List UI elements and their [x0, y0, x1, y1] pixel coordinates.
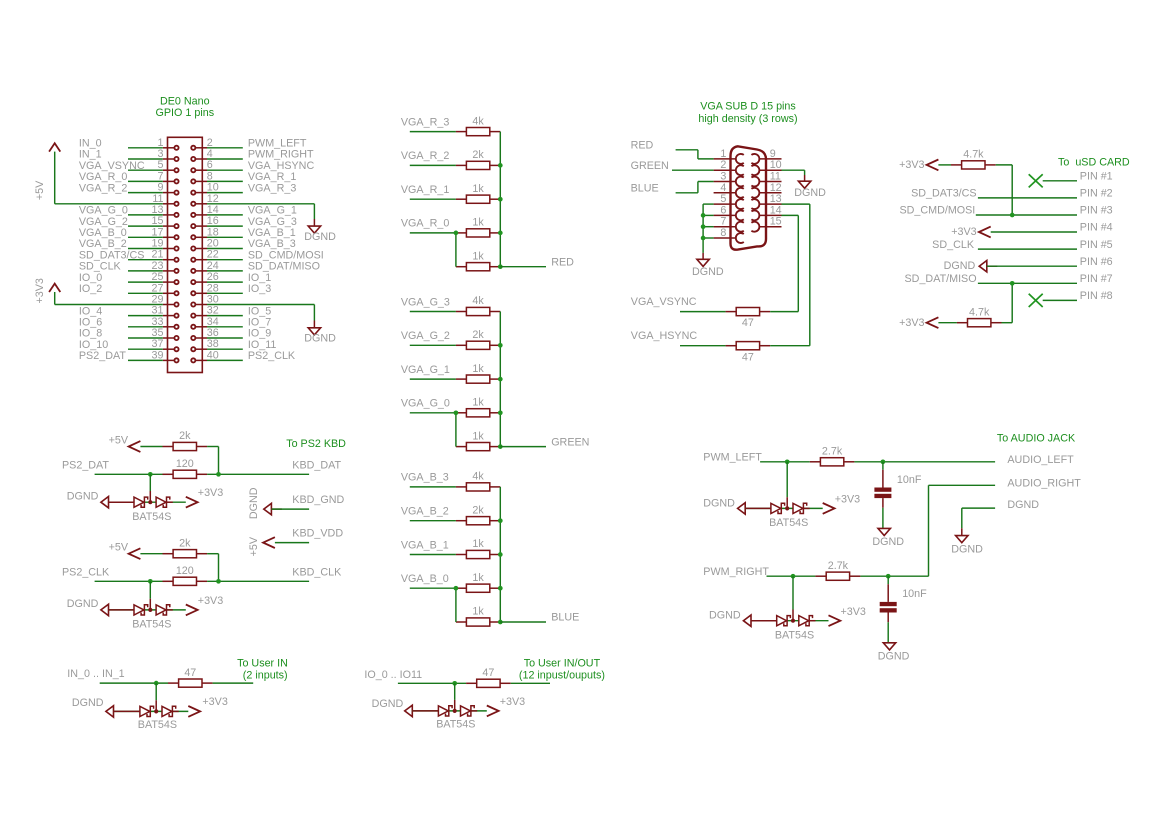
wire GREEN to pin 2 [672, 169, 714, 171]
resistor 2k (VGA_B_2) [456, 504, 500, 524]
wire net VGA_B_0 [410, 587, 456, 589]
connector VGA SUB D 15 pins [698, 101, 797, 250]
diode BAT54S (user IO) diode A [438, 706, 452, 716]
wire net IO_6 [128, 326, 163, 328]
svg-text:20: 20 [207, 238, 219, 250]
svg-text:47: 47 [742, 317, 754, 329]
svg-text:1k: 1k [472, 183, 484, 195]
wire +3V3 to pin 29 [55, 304, 163, 306]
svg-text:PWM_LEFT: PWM_LEFT [703, 452, 762, 464]
pin 5 (D-sub left) [714, 193, 744, 209]
svg-text:VGA_R_2: VGA_R_2 [79, 182, 127, 194]
svg-text:DGND: DGND [951, 543, 983, 555]
pin 40 (right row 20) [191, 349, 219, 362]
svg-text:PS2_CLK: PS2_CLK [248, 350, 296, 362]
node junction clamp tap [785, 459, 790, 464]
lead DGND to diode A [114, 710, 140, 712]
wire net IO_4 [128, 315, 163, 317]
wire ladder summing bus [499, 487, 501, 622]
diode BAT54S (user IN) center junction [154, 709, 158, 713]
svg-text:VGA_B_1: VGA_B_1 [248, 227, 296, 239]
wire net VGA_B_2 [410, 520, 456, 522]
svg-text:9: 9 [770, 148, 776, 160]
svg-text:9: 9 [158, 182, 164, 194]
svg-text:1k: 1k [472, 538, 484, 550]
svg-text:VGA_HSYNC: VGA_HSYNC [248, 160, 315, 172]
svg-text:PWM_RIGHT: PWM_RIGHT [248, 149, 314, 161]
svg-text:1k: 1k [472, 572, 484, 584]
pin 1 (left row 1) [158, 137, 179, 150]
supply +3V3 arrow (top pull-up) [927, 160, 939, 171]
pin 3 (D-sub left) [714, 171, 744, 187]
svg-text:BAT54S: BAT54S [436, 719, 475, 731]
svg-text:39: 39 [152, 349, 164, 361]
svg-text:10: 10 [207, 182, 219, 194]
wire BLUE horizontal [676, 192, 698, 194]
svg-text:PIN #2: PIN #2 [1080, 188, 1113, 200]
wire net IO_3 [207, 292, 243, 294]
svg-text:38: 38 [207, 338, 219, 350]
wire net KBD_GND [271, 508, 309, 510]
svg-text:11: 11 [770, 171, 781, 183]
svg-text:GREEN: GREEN [551, 436, 589, 448]
svg-text:SD_DAT/MISO: SD_DAT/MISO [905, 273, 977, 285]
supply +5V arrow (KBD_VDD) [263, 537, 275, 548]
svg-text:37: 37 [152, 338, 164, 350]
pin 11 (D-sub right) [751, 171, 781, 187]
svg-text:1k: 1k [472, 217, 484, 229]
resistor 47 (HSYNC) [726, 342, 771, 364]
svg-text:2k: 2k [179, 430, 191, 442]
node bus junction [498, 264, 503, 269]
pin 2 (right row 1) [191, 137, 213, 150]
wire VSYNC vertical [797, 215, 799, 311]
wire +5V to 2k [140, 446, 162, 448]
resistor 4.7k (MISO pull-up) [957, 306, 1002, 326]
svg-text:BLUE: BLUE [551, 612, 579, 624]
resistor 1k (VGA_R_1) [456, 183, 500, 203]
node bus junction [498, 410, 503, 415]
wire pin 8 stub [703, 237, 714, 239]
svg-text:12: 12 [770, 182, 782, 194]
wire net VGA_B_3 [207, 248, 243, 250]
svg-text:8: 8 [207, 170, 213, 182]
connector shell [731, 146, 767, 249]
node junction pull-up [216, 472, 221, 477]
svg-text:RED: RED [551, 256, 574, 268]
wire net PWM_RIGHT [207, 158, 243, 160]
svg-text:+3V3: +3V3 [202, 696, 227, 708]
wire resistor to output [854, 461, 995, 463]
wire ladder lower branch [455, 413, 457, 447]
svg-text:DGND: DGND [944, 260, 976, 272]
supply +3V3 (GPIO pin 29) [34, 278, 60, 303]
ground DGND (left of diode BAT54S (PWM_RIGHT)) [743, 615, 751, 626]
svg-text:10nF: 10nF [902, 588, 927, 600]
wire net SD_CLK [978, 248, 1077, 250]
svg-text:120: 120 [176, 458, 194, 470]
svg-text:35: 35 [152, 327, 164, 339]
wire net PS2_CLK [207, 359, 243, 361]
ground DGND (jack) [951, 536, 983, 556]
svg-text:1: 1 [720, 148, 726, 160]
resistor 2k (PS2_DAT pull-up) [163, 430, 208, 450]
pin 20 (right row 10) [191, 238, 219, 251]
wire net VGA_G_2 [410, 344, 456, 346]
lead DGND to diode A [412, 710, 438, 712]
svg-text:+5V: +5V [248, 536, 260, 556]
supply +3V3 arrow [823, 503, 835, 514]
supply +5V (GPIO pin 11) [34, 143, 60, 200]
svg-text:VGA_G_1: VGA_G_1 [401, 364, 450, 376]
svg-text:VGA_HSYNC: VGA_HSYNC [631, 330, 698, 342]
lead DGND to diode A [745, 507, 771, 509]
svg-text:PIN #1: PIN #1 [1080, 171, 1113, 183]
node junction clamp tap [148, 579, 153, 584]
wire RED jog down [697, 150, 699, 159]
svg-text:2.7k: 2.7k [822, 446, 843, 458]
wire PIN #4 [991, 231, 1077, 233]
svg-text:BAT54S: BAT54S [132, 511, 171, 523]
connector body outline [168, 137, 203, 372]
pin 28 (right row 14) [191, 282, 219, 295]
node bus junction [498, 377, 503, 382]
ground DGND (pin 10) [794, 181, 826, 199]
svg-text:VGA_B_2: VGA_B_2 [401, 506, 449, 518]
svg-text:1k: 1k [472, 397, 484, 409]
pin 15 (D-sub right) [751, 216, 781, 232]
diode BAT54S (PS2_DAT) diode A [134, 497, 148, 507]
svg-text:(2 inputs): (2 inputs) [243, 669, 288, 681]
pin 9 (D-sub right) [751, 148, 781, 164]
svg-text:IO_8: IO_8 [79, 328, 102, 340]
resistor 2.7k (PWM_LEFT) [810, 446, 855, 466]
wire net VGA_G_1 [207, 214, 243, 216]
svg-text:23: 23 [152, 260, 164, 272]
svg-text:+3V3: +3V3 [899, 159, 924, 171]
lead diode B cathode [167, 609, 173, 611]
pin 32 (right row 16) [191, 305, 219, 318]
wire clamp vertical [149, 581, 151, 598]
wire net VGA_G_0 [128, 214, 163, 216]
svg-text:VGA_G_3: VGA_G_3 [401, 296, 450, 308]
supply +3V3 arrow [487, 706, 499, 717]
wire AUDIO_RIGHT vertical [928, 485, 930, 576]
svg-text:+5V: +5V [34, 180, 46, 200]
svg-text:VGA_R_3: VGA_R_3 [401, 116, 449, 128]
lead DGND symbol [961, 528, 963, 535]
svg-text:+3V3: +3V3 [500, 696, 525, 708]
lead BAT54S center pin [792, 610, 794, 621]
wire 2k to corner [207, 446, 218, 448]
svg-text:5: 5 [720, 193, 726, 205]
wire resistor to output [860, 575, 928, 577]
svg-text:GPIO 1 pins: GPIO 1 pins [156, 107, 215, 119]
svg-text:47: 47 [482, 667, 494, 679]
wire net KBD_DAT [207, 473, 309, 475]
wire net VGA_HSYNC [207, 169, 243, 171]
pin 7 (D-sub left) [714, 216, 744, 232]
wire clamp vertical [454, 683, 456, 700]
wire net IO_9 [207, 337, 243, 339]
pin 8 (D-sub left) [714, 227, 744, 243]
svg-text:IO_2: IO_2 [79, 283, 102, 295]
wire net VGA_R_3 [207, 192, 243, 194]
svg-text:IN_0 .. IN_1: IN_0 .. IN_1 [67, 668, 124, 680]
supply +3V3 arrow [829, 615, 841, 626]
node junction clamp tap [791, 574, 796, 579]
wire pin 7 stub [703, 226, 714, 228]
svg-text:KBD_CLK: KBD_CLK [292, 566, 342, 578]
svg-text:GREEN: GREEN [631, 160, 669, 172]
supply +3V3 arrow [186, 605, 198, 616]
node junction pull-up [216, 579, 221, 584]
svg-text:16: 16 [207, 215, 219, 227]
connector DE0 Nano GPIO 1 2x20 header [79, 95, 324, 372]
wire RED to pin 1 [698, 158, 714, 160]
svg-text:(12 inpust/ouputs): (12 inpust/ouputs) [519, 669, 605, 681]
wire net VGA_R_1 [207, 180, 243, 182]
wire net VGA_R_3 [410, 131, 456, 133]
node bus junction [498, 163, 503, 168]
lead DGND to diode A [109, 501, 135, 503]
wire net IN_0 [128, 147, 163, 149]
node junction VGA_R_0 [454, 231, 459, 236]
svg-text:1k: 1k [472, 363, 484, 375]
resistor 4.7k (CS pull-up) [951, 149, 996, 169]
svg-text:VGA_B_3: VGA_B_3 [401, 472, 449, 484]
wire net VGA_R_0 [128, 180, 163, 182]
resistor 1k (BLUE terminator) [456, 606, 500, 626]
lead BAT54S center pin [149, 491, 151, 502]
wire net SD_CLK [128, 270, 163, 272]
node bus junction [498, 444, 503, 449]
pin 5 (left row 3) [158, 159, 179, 172]
wire VSYNC to pin 14 [770, 311, 798, 313]
diode BAT54S (user IO) center junction [453, 709, 457, 713]
pin 16 (right row 8) [191, 215, 219, 228]
svg-text:SD_CLK: SD_CLK [932, 239, 975, 251]
svg-text:1k: 1k [472, 606, 484, 618]
svg-text:8: 8 [720, 227, 726, 239]
svg-text:To User IN: To User IN [237, 658, 288, 670]
lead diode B cathode [809, 620, 815, 622]
svg-text:VGA_B_1: VGA_B_1 [401, 539, 449, 551]
svg-text:120: 120 [176, 565, 194, 577]
svg-text:AUDIO_RIGHT: AUDIO_RIGHT [1007, 478, 1081, 490]
svg-text:5: 5 [158, 159, 164, 171]
wire net VGA_VSYNC [680, 311, 726, 313]
supply +3V3 arrow (bottom pull-up) [927, 317, 939, 328]
wire net SD_DAT/MISO [978, 282, 1077, 284]
node junction VGA_G_0 [454, 410, 459, 415]
pin 18 (right row 9) [191, 226, 219, 239]
svg-text:10: 10 [770, 159, 782, 171]
svg-text:4.7k: 4.7k [963, 149, 984, 161]
ground DGND (cap PWM_RIGHT) [878, 643, 910, 663]
pin 12 (right row 6) [191, 193, 219, 206]
node junction pin 7 [701, 224, 706, 229]
svg-text:IO_3: IO_3 [248, 283, 271, 295]
svg-text:2.7k: 2.7k [828, 560, 849, 572]
svg-text:PIN #4: PIN #4 [1080, 222, 1113, 234]
svg-text:+3V3: +3V3 [835, 494, 860, 506]
wire user IN out [213, 682, 254, 684]
pin 29 (left row 15) [152, 294, 179, 307]
svg-text:1k: 1k [472, 250, 484, 262]
svg-text:VGA_R_1: VGA_R_1 [401, 184, 449, 196]
svg-text:IO_7: IO_7 [248, 317, 271, 329]
wire net BLUE [500, 621, 546, 623]
svg-text:VGA_R_3: VGA_R_3 [248, 182, 296, 194]
svg-text:DGND: DGND [304, 231, 336, 243]
wire ladder lower branch [455, 588, 457, 622]
diode BAT54S (user IN) diode A [140, 706, 154, 716]
capacitor 10nF (PWM_RIGHT) [880, 576, 927, 643]
pin 30 (right row 15) [191, 294, 219, 307]
wire pin 14 (VSYNC) [782, 214, 799, 216]
node bus junction [498, 586, 503, 591]
pin 3 (left row 2) [158, 148, 179, 161]
svg-text:DGND: DGND [67, 490, 99, 502]
svg-text:VGA_R_0: VGA_R_0 [79, 171, 127, 183]
wire HSYNC vertical [809, 204, 811, 346]
wire user IO out [511, 682, 550, 684]
wire +3V3 to resistor [938, 322, 957, 324]
wire clamp vertical [792, 576, 794, 609]
svg-text:40: 40 [207, 349, 219, 361]
svg-text:10nF: 10nF [897, 474, 922, 486]
svg-text:+5V: +5V [109, 542, 129, 554]
pin 34 (right row 17) [191, 316, 219, 329]
svg-text:+5V: +5V [109, 434, 129, 446]
resistor 1k (VGA_B_1) [456, 538, 500, 558]
wire ladder summing bus [499, 132, 501, 267]
resistor 47 (VSYNC) [726, 308, 771, 330]
svg-text:IO_4: IO_4 [79, 305, 102, 317]
svg-text:VGA_R_2: VGA_R_2 [401, 150, 449, 162]
svg-text:VGA_G_0: VGA_G_0 [401, 398, 450, 410]
pin 37 (left row 19) [152, 338, 179, 351]
wire pull-up vertical [1011, 165, 1013, 215]
ground DGND (left of diode BAT54S (PS2_CLK)) [101, 604, 109, 615]
svg-text:IO_9: IO_9 [248, 328, 271, 340]
wire clamp row [109, 501, 186, 503]
ground DGND (left of diode BAT54S (user IN)) [106, 706, 114, 717]
svg-text:PS2_DAT: PS2_DAT [62, 459, 109, 471]
wire clamp row [412, 710, 487, 712]
svg-text:15: 15 [770, 216, 782, 228]
resistor 1k (RED terminator) [456, 250, 500, 270]
wire net IO_11 [207, 348, 243, 350]
ground DGND (KBD_GND) [264, 503, 282, 514]
resistor 47 (user IO series) [466, 667, 511, 687]
svg-text:BAT54S: BAT54S [138, 719, 177, 731]
ground DGND (cap PWM_LEFT) [872, 528, 904, 548]
wire D-sub ground bus [702, 204, 704, 253]
wire net PWM_RIGHT [767, 575, 816, 577]
resistor 4k (VGA_R_3) [456, 115, 500, 135]
svg-text:IO_1: IO_1 [248, 272, 271, 284]
svg-text:2: 2 [720, 159, 726, 171]
svg-text:33: 33 [152, 316, 164, 328]
wire net VGA_R_2 [410, 164, 456, 166]
svg-text:IN_0: IN_0 [79, 138, 102, 150]
node bus junction [498, 343, 503, 348]
pin 38 (right row 19) [191, 338, 219, 351]
svg-text:22: 22 [207, 249, 219, 261]
lead diode B cathode [803, 507, 809, 509]
pin 7 (left row 4) [158, 170, 179, 183]
pin 13 (D-sub right) [751, 193, 781, 209]
wire net SD_DAT/MISO [207, 270, 243, 272]
svg-text:28: 28 [207, 282, 219, 294]
wire net IO_2 [128, 292, 163, 294]
svg-text:+3V3: +3V3 [951, 226, 976, 238]
svg-text:2k: 2k [472, 149, 484, 161]
supply +3V3 arrow [186, 497, 198, 508]
wire net VGA_G_3 [207, 225, 243, 227]
svg-text:DGND: DGND [67, 598, 99, 610]
svg-text:DGND: DGND [709, 610, 741, 622]
wire net SD_CMD/MOSI [207, 259, 243, 261]
pin 25 (left row 13) [152, 271, 179, 284]
svg-text:+3V3: +3V3 [841, 606, 866, 618]
diode BAT54S (PS2_CLK) diode A [134, 605, 148, 615]
svg-text:6: 6 [720, 204, 726, 216]
svg-text:DGND: DGND [72, 697, 104, 709]
lead diode B cathode [471, 710, 477, 712]
svg-text:VGA_G_1: VGA_G_1 [248, 205, 297, 217]
pin 31 (left row 16) [152, 305, 179, 318]
resistor 120 (PS2_CLK series) [163, 565, 208, 585]
lead BAT54S center pin [454, 700, 456, 711]
svg-text:DGND: DGND [304, 333, 336, 345]
lead DGND to diode A [751, 620, 777, 622]
svg-text:VGA_B_2: VGA_B_2 [79, 238, 127, 250]
wire net PS2_DAT [95, 473, 163, 475]
resistor 2k (VGA_R_2) [456, 149, 500, 169]
wire net VGA_VSYNC [128, 169, 163, 171]
svg-text:SD_DAT/MISO: SD_DAT/MISO [248, 261, 320, 273]
svg-text:IO_0: IO_0 [79, 272, 102, 284]
node bus junction [498, 231, 503, 236]
svg-text:47: 47 [742, 351, 754, 363]
svg-text:27: 27 [152, 282, 164, 294]
svg-text:4: 4 [720, 182, 726, 194]
svg-text:BLUE: BLUE [631, 183, 659, 195]
wire clamp row [751, 620, 829, 622]
node bus junction [498, 552, 503, 557]
wire DGND vertical [313, 305, 315, 321]
svg-text:PWM_RIGHT: PWM_RIGHT [703, 566, 769, 578]
resistor 47 (user IN series) [168, 667, 213, 687]
wire net KBD_VDD [275, 542, 309, 544]
pin 6 (D-sub left) [714, 204, 744, 220]
wire jack ground [962, 507, 995, 509]
wire clamp vertical [786, 462, 788, 497]
svg-text:BAT54S: BAT54S [775, 629, 814, 641]
wire +3V3 vertical [54, 292, 56, 305]
node junction pin 8 [701, 236, 706, 241]
node junction filter cap [881, 459, 886, 464]
wire pin 6 stub [703, 214, 714, 216]
wire net IO_1 [207, 281, 243, 283]
svg-text:IO_0 .. IO11: IO_0 .. IO11 [364, 669, 422, 681]
lead diode B cathode [172, 710, 178, 712]
svg-text:32: 32 [207, 305, 219, 317]
pin 13 (left row 7) [152, 204, 179, 217]
